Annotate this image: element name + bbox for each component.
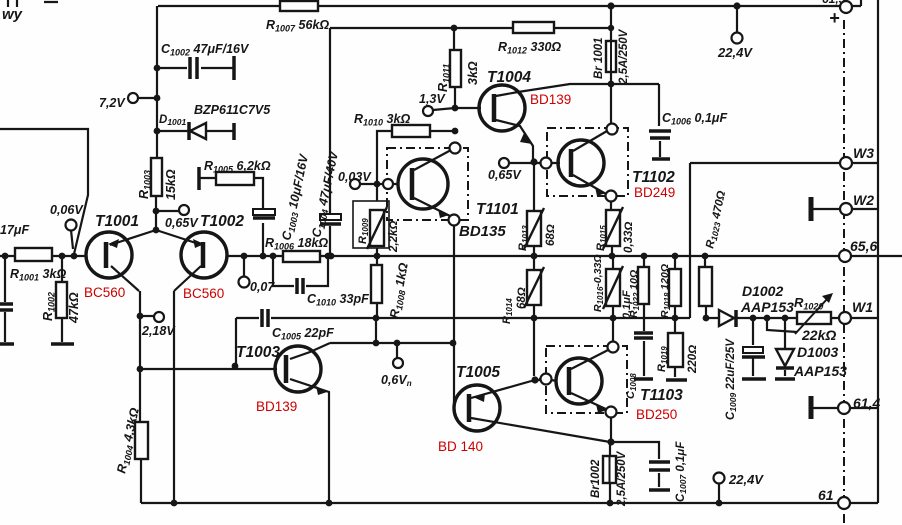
svg-text:1,3V: 1,3V bbox=[419, 92, 446, 106]
svg-text:0,07: 0,07 bbox=[250, 280, 275, 294]
svg-text:2,2kΩ: 2,2kΩ bbox=[388, 221, 400, 253]
svg-text:BC560: BC560 bbox=[84, 285, 125, 300]
svg-text:R1010 3kΩ: R1010 3kΩ bbox=[354, 112, 410, 128]
svg-text:0,03V: 0,03V bbox=[338, 170, 372, 184]
svg-text:0,65V: 0,65V bbox=[165, 216, 199, 230]
svg-text:T1002: T1002 bbox=[200, 213, 244, 230]
svg-text:BD249: BD249 bbox=[634, 185, 675, 200]
svg-text:R1001 3kΩ: R1001 3kΩ bbox=[10, 267, 66, 283]
svg-text:BD139: BD139 bbox=[256, 399, 297, 414]
svg-text:T1001: T1001 bbox=[95, 213, 139, 230]
svg-text:68Ω: 68Ω bbox=[545, 224, 557, 246]
svg-text:2,18V: 2,18V bbox=[141, 324, 176, 338]
svg-text:D1002: D1002 bbox=[742, 283, 783, 299]
svg-text:BD135: BD135 bbox=[459, 223, 506, 240]
svg-text:T1004: T1004 bbox=[487, 69, 531, 86]
svg-text:17μF: 17μF bbox=[0, 223, 29, 237]
svg-text:Br1002: Br1002 bbox=[590, 459, 602, 498]
svg-text:47kΩ: 47kΩ bbox=[67, 292, 81, 324]
svg-text:T1101: T1101 bbox=[476, 201, 519, 218]
svg-text:2,5A/250V: 2,5A/250V bbox=[616, 450, 628, 507]
svg-text:T1005: T1005 bbox=[456, 364, 500, 381]
svg-text:AAP153: AAP153 bbox=[740, 299, 794, 315]
svg-text:61,4: 61,4 bbox=[853, 395, 880, 411]
svg-text:W1: W1 bbox=[852, 299, 873, 315]
svg-text:BD250: BD250 bbox=[636, 407, 677, 422]
svg-text:0,65V: 0,65V bbox=[488, 168, 522, 182]
svg-text:W2: W2 bbox=[853, 192, 874, 208]
svg-text:T1102: T1102 bbox=[632, 169, 675, 186]
svg-text:7,2V: 7,2V bbox=[99, 96, 126, 110]
svg-text:3kΩ: 3kΩ bbox=[466, 61, 480, 85]
svg-text:61: 61 bbox=[818, 487, 834, 503]
svg-text:22,4V: 22,4V bbox=[717, 45, 753, 60]
svg-text:68Ω: 68Ω bbox=[516, 287, 528, 309]
svg-text:W3: W3 bbox=[853, 145, 874, 161]
svg-text:BD 140: BD 140 bbox=[438, 439, 483, 454]
svg-text:BC560: BC560 bbox=[183, 286, 224, 301]
svg-text:15kΩ: 15kΩ bbox=[164, 169, 178, 200]
svg-text:61,5: 61,5 bbox=[822, 0, 846, 6]
svg-text:T1003: T1003 bbox=[236, 344, 280, 361]
svg-text:22,4V: 22,4V bbox=[728, 472, 764, 487]
svg-text:65,6: 65,6 bbox=[850, 238, 877, 254]
svg-text:220Ω: 220Ω bbox=[687, 345, 699, 374]
svg-text:BD139: BD139 bbox=[530, 92, 571, 107]
svg-text:2,5A/250V: 2,5A/250V bbox=[618, 28, 630, 85]
svg-text:+: + bbox=[829, 8, 840, 28]
svg-text:AAP153: AAP153 bbox=[793, 363, 847, 379]
svg-text:Br 1001: Br 1001 bbox=[593, 37, 605, 79]
svg-text:D1003: D1003 bbox=[797, 344, 838, 360]
svg-text:22kΩ: 22kΩ bbox=[801, 327, 836, 343]
svg-text:wy: wy bbox=[2, 6, 23, 23]
svg-text:BZP611C7V5: BZP611C7V5 bbox=[194, 103, 271, 117]
svg-text:0,06V: 0,06V bbox=[50, 203, 84, 217]
svg-text:T1103: T1103 bbox=[640, 387, 683, 404]
svg-text:0,33Ω: 0,33Ω bbox=[623, 222, 635, 253]
